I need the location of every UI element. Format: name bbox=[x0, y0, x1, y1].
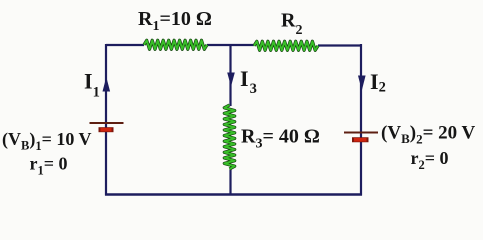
arrow I1 (up) bbox=[103, 77, 111, 92]
svg-text:r1= 0: r1= 0 bbox=[30, 154, 68, 178]
wire R2 to top-right corner bbox=[318, 44, 362, 46]
wire middle vertical lower bbox=[229, 168, 231, 196]
svg-text:(VB)1= 10 V: (VB)1= 10 V bbox=[2, 129, 92, 153]
battery V_B1 long plate bbox=[90, 122, 124, 124]
svg-text:I3: I3 bbox=[240, 66, 257, 97]
wire left vertical bbox=[105, 44, 107, 196]
battery V_B2 short plate bbox=[352, 137, 369, 142]
wire middle vertical upper bbox=[229, 45, 231, 106]
arrow I2 (down) bbox=[358, 76, 366, 91]
svg-text:(VB)2= 20 V: (VB)2= 20 V bbox=[381, 123, 476, 147]
resistor R3 bbox=[224, 105, 234, 169]
svg-text:r2= 0: r2= 0 bbox=[411, 148, 449, 172]
wire bottom bbox=[105, 193, 362, 195]
battery V_B2 long plate bbox=[344, 132, 378, 134]
svg-text:R3= 40 Ω: R3= 40 Ω bbox=[241, 126, 320, 152]
svg-text:R2: R2 bbox=[281, 10, 302, 39]
wire R1 to R2 (through node at middle branch) bbox=[207, 44, 254, 46]
svg-text:I2: I2 bbox=[370, 69, 386, 96]
battery V_B1 short plate bbox=[99, 127, 114, 132]
svg-text:I1: I1 bbox=[84, 69, 100, 101]
wire right vertical bbox=[360, 44, 362, 196]
resistor R1 bbox=[144, 40, 207, 49]
svg-text:R1=10 Ω: R1=10 Ω bbox=[138, 8, 212, 34]
arrow I3 (down) bbox=[227, 73, 235, 87]
resistor R2 bbox=[254, 41, 318, 50]
wire top-left to R1 bbox=[106, 44, 144, 46]
